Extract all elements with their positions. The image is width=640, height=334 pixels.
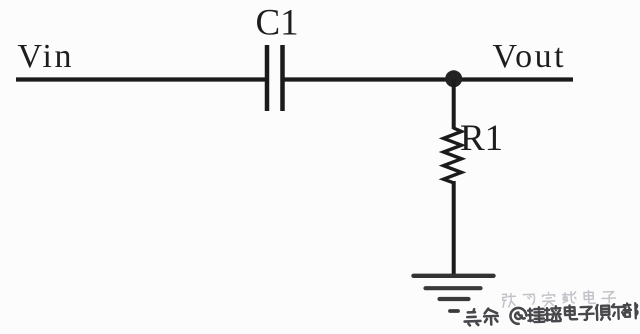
svg-text:C1: C1 (256, 3, 299, 44)
svg-text:Vin: Vin (18, 38, 74, 75)
svg-text:Vout: Vout (493, 38, 567, 75)
svg-text:R1: R1 (460, 118, 503, 159)
